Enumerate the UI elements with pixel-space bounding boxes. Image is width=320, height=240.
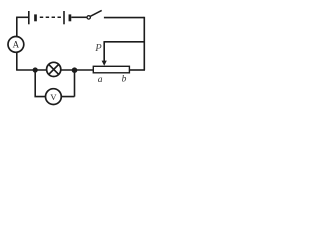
wire battery to switch <box>71 16 87 18</box>
wire rheostat right lead <box>129 69 145 71</box>
battery B1 cell 1 short thick plate (-) <box>34 14 37 21</box>
node junction dot left <box>33 67 38 72</box>
voltmeter V circle <box>46 89 62 105</box>
svg-text:P: P <box>94 43 102 54</box>
svg-text:V: V <box>50 92 57 102</box>
svg-text:a: a <box>98 75 103 85</box>
dashed wire between battery cells <box>40 16 61 18</box>
ammeter A circle <box>8 37 24 53</box>
rheostat R body <box>93 66 129 73</box>
svg-text:A: A <box>13 40 20 50</box>
wire bottom-left horizontal (corner to lamp) <box>16 69 47 71</box>
lamp circle <box>47 62 61 76</box>
wire switch to top-right corner <box>104 17 144 19</box>
battery B1 cell 2 short thick plate (-) <box>69 14 72 21</box>
battery B1 cell 1 long plate (+) <box>28 11 30 24</box>
battery B1 cell 2 long plate (+) <box>63 11 65 24</box>
wire slider arrow stem <box>103 41 105 62</box>
wire lamp to rheostat <box>61 69 94 71</box>
switch S lever (open) <box>90 10 102 16</box>
wire voltmeter branch left <box>35 70 45 97</box>
switch S pivot circle <box>87 16 90 19</box>
wire top-left vertical (ammeter top to corner) <box>16 17 18 36</box>
wire bottom-left vertical (ammeter bottom to corner) <box>16 52 18 70</box>
slider P arrowhead <box>102 61 107 66</box>
svg-text:b: b <box>122 75 127 85</box>
lamp cross X <box>49 65 59 75</box>
wire right rail vertical <box>143 17 145 70</box>
wire slider tap horizontal <box>104 41 145 43</box>
node junction dot right <box>72 67 78 73</box>
wire voltmeter branch right <box>61 70 74 97</box>
wire top-left horizontal (corner to battery) <box>16 16 29 18</box>
